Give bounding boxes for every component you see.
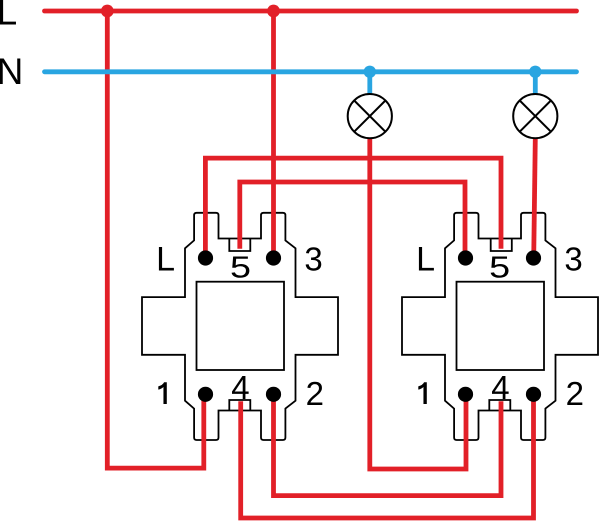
svg-text:4: 4 [231,369,249,406]
svg-text:N: N [0,51,23,92]
svg-text:3: 3 [564,240,582,277]
svg-text:5: 5 [489,250,510,285]
svg-text:4: 4 [491,369,509,406]
svg-text:3: 3 [304,240,322,277]
svg-text:L: L [0,0,17,33]
svg-text:L: L [156,240,175,278]
svg-text:2: 2 [306,375,324,412]
svg-text:2: 2 [566,375,584,412]
svg-text:L: L [416,240,435,278]
svg-text:5: 5 [230,250,251,285]
